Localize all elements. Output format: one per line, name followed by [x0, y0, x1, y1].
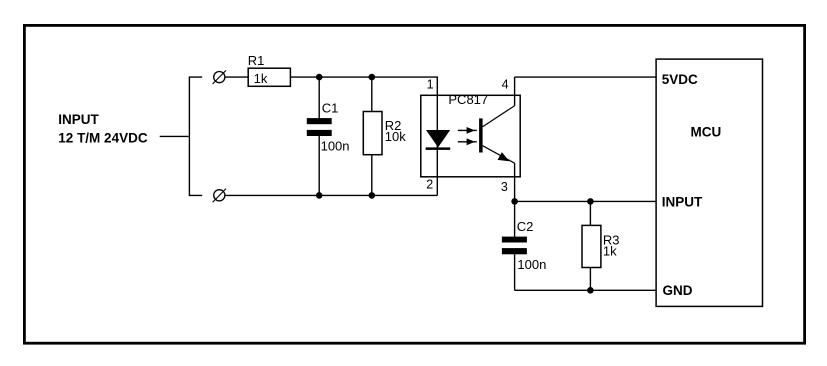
wire top rail R1 to opto pin1 — [290, 77, 437, 95]
transistor Q1 base bar — [479, 118, 483, 152]
svg-text:1k: 1k — [254, 71, 268, 86]
capacitor C1 — [307, 77, 332, 195]
wire label to bracket — [160, 135, 189, 137]
svg-text:GND: GND — [663, 283, 693, 298]
wire input bracket — [189, 77, 202, 195]
junction top R2 — [369, 74, 376, 81]
wire pin4 lead — [514, 77, 516, 106]
svg-text:INPUT: INPUT — [58, 112, 99, 127]
svg-text:1: 1 — [427, 78, 434, 92]
svg-text:C2: C2 — [517, 219, 534, 234]
transistor Q1 collector — [483, 106, 515, 127]
svg-text:100n: 100n — [321, 138, 350, 153]
wire bottom rail terminal to opto pin2 — [225, 194, 437, 196]
diode D1 cathode bar — [426, 147, 451, 150]
svg-text:2: 2 — [426, 178, 433, 192]
node INPUT label — [58, 112, 148, 145]
svg-text:5VDC: 5VDC — [662, 72, 698, 87]
wire LED through line pin1 to pin2 — [436, 95, 438, 195]
svg-text:3: 3 — [501, 180, 508, 194]
svg-text:1k: 1k — [603, 243, 617, 258]
resistor R3 — [582, 201, 601, 290]
junction pin3 INPUT rail — [511, 198, 518, 205]
svg-text:MCU: MCU — [691, 124, 722, 139]
svg-text:100n: 100n — [517, 257, 546, 272]
wire GND rail to MCU — [515, 289, 657, 291]
svg-text:INPUT: INPUT — [662, 195, 703, 210]
op-amp U1 PC817 body — [421, 95, 520, 177]
MCU box — [656, 59, 762, 306]
junction top C1 — [316, 74, 323, 81]
capacitor C2 — [502, 237, 527, 291]
svg-text:12 T/M 24VDC: 12 T/M 24VDC — [58, 130, 148, 145]
terminal X2 — [213, 189, 226, 203]
wire pin3 lead down — [514, 163, 516, 237]
svg-text:PC817: PC817 — [448, 92, 488, 107]
wire terminal to R1 — [225, 76, 248, 78]
arrow light 2 — [458, 138, 477, 145]
svg-text:10k: 10k — [385, 129, 406, 144]
junction R3 bottom — [587, 287, 594, 294]
svg-text:4: 4 — [502, 78, 509, 92]
svg-text:C1: C1 — [322, 101, 339, 116]
svg-text:R1: R1 — [248, 53, 265, 68]
resistor R1 — [248, 68, 290, 86]
diode D1 LED triangle — [426, 130, 450, 147]
arrow light 1 — [458, 127, 477, 134]
wire top rail pin4 to MCU 5VDC — [515, 76, 657, 78]
junction bottom C1 — [316, 192, 323, 199]
junction bottom R2 — [369, 192, 376, 199]
transistor Q1 emitter — [483, 146, 515, 164]
wire INPUT rail to MCU — [515, 200, 657, 202]
resistor R2 — [363, 77, 382, 195]
transistor Q1 emitter arrow — [498, 152, 510, 161]
junction R3 top — [587, 198, 594, 205]
terminal X1 — [213, 70, 226, 84]
